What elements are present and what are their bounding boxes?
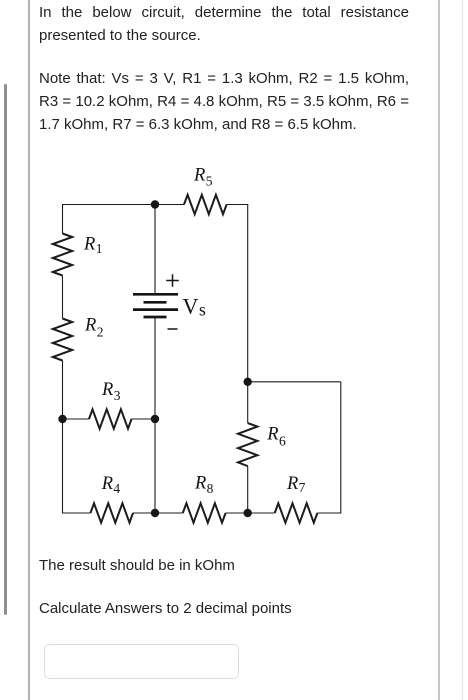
- resistor R4: [91, 503, 134, 522]
- svg-text:7: 7: [299, 480, 306, 495]
- far right line: [462, 0, 463, 700]
- wire middle rail lower: [154, 317, 156, 513]
- resistor R6: [238, 423, 257, 466]
- svg-text:6: 6: [279, 433, 286, 448]
- card left border: [28, 0, 30, 700]
- wire bottom segment 4: [317, 512, 340, 514]
- wire bottom segment 3: [226, 512, 275, 514]
- svg-text:3: 3: [114, 388, 121, 403]
- svg-text:R: R: [101, 380, 113, 400]
- svg-text:R: R: [193, 165, 205, 185]
- answer input box: [44, 644, 239, 679]
- resistor R8: [183, 503, 226, 522]
- resistor R3: [89, 409, 132, 428]
- svg-text:8: 8: [207, 481, 214, 496]
- resistor R5: [184, 195, 227, 214]
- svg-text:s: s: [199, 299, 206, 319]
- junction node top: [151, 200, 159, 208]
- wire left rail lower: [62, 361, 64, 514]
- voltage source Vs battery plate long top: [133, 293, 178, 296]
- wire R3 right: [132, 418, 156, 420]
- label + polarity: [166, 274, 179, 287]
- scrollbar thumb: [4, 84, 7, 615]
- wire bottom segment 1: [63, 512, 91, 514]
- junction node bottom middle: [151, 509, 159, 517]
- svg-text:R: R: [84, 316, 96, 336]
- voltage source Vs battery plate long lower: [133, 308, 178, 311]
- wire right rail upper: [247, 204, 249, 423]
- svg-text:R: R: [194, 474, 206, 494]
- resistor R1: [53, 234, 72, 276]
- wire top right segment: [227, 204, 249, 206]
- label - polarity: [168, 328, 178, 330]
- resistor R2: [53, 319, 72, 361]
- svg-text:5: 5: [206, 174, 213, 189]
- voltage source Vs battery plate short bottom: [144, 316, 167, 319]
- junction node branch: [244, 378, 252, 386]
- wire top left segment: [63, 204, 185, 206]
- voltage source Vs battery plate short upper: [144, 301, 167, 304]
- wire left rail between R1 R2: [62, 276, 64, 319]
- junction node R3 left: [58, 415, 66, 423]
- junction node bottom right: [244, 509, 252, 517]
- wire R3 left: [63, 418, 90, 420]
- wire right rail lower: [247, 466, 249, 513]
- svg-text:4: 4: [113, 481, 120, 496]
- wire bottom segment 2: [133, 512, 183, 514]
- wire outer right rail: [340, 382, 342, 514]
- svg-text:1: 1: [96, 241, 103, 256]
- wire branch horizontal: [248, 381, 341, 383]
- card right border: [438, 0, 440, 700]
- resistor R7: [275, 503, 318, 522]
- svg-text:R: R: [266, 424, 278, 444]
- junction node R3 right: [151, 415, 159, 423]
- svg-text:R: R: [101, 474, 113, 494]
- svg-text:V: V: [183, 294, 199, 319]
- svg-text:R: R: [286, 474, 298, 494]
- wire left rail upper: [62, 204, 64, 234]
- svg-text:2: 2: [97, 325, 104, 340]
- wire middle rail upper: [154, 205, 156, 295]
- svg-text:R: R: [83, 234, 95, 254]
